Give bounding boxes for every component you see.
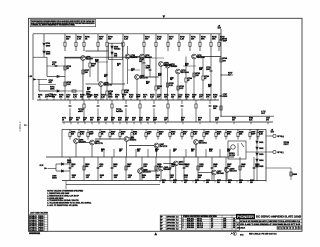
resistor R9 <box>167 42 169 46</box>
resistor R34 <box>195 104 197 108</box>
svg-text:R875: R875 <box>195 180 199 182</box>
svg-text:R859: R859 <box>155 149 159 151</box>
wire <box>140 122 142 124</box>
wire <box>196 56 221 58</box>
svg-text:R871: R871 <box>162 180 166 182</box>
resistor R6 <box>122 42 124 46</box>
wire <box>78 129 80 132</box>
wire <box>253 157 255 181</box>
wire <box>185 57 187 79</box>
capacitor C10 <box>125 105 128 106</box>
svg-text:RF: RF <box>161 228 163 230</box>
resistor R54 <box>125 166 127 170</box>
capacitor C7 <box>220 95 223 96</box>
wire <box>39 90 57 92</box>
svg-text:680: 680 <box>52 97 55 99</box>
svg-text:C833: C833 <box>206 180 210 182</box>
wire <box>256 161 258 165</box>
wire <box>78 142 89 144</box>
wire <box>81 98 83 100</box>
svg-text:2SC945: 2SC945 <box>217 172 225 175</box>
wire <box>99 129 101 132</box>
svg-text:220P: 220P <box>251 134 256 136</box>
svg-text:R756: R756 <box>185 64 189 66</box>
resistor R51 <box>249 133 251 137</box>
svg-text:150: 150 <box>85 72 88 74</box>
capacitor C16 <box>111 167 114 168</box>
wire <box>153 100 155 104</box>
wire <box>167 68 169 100</box>
svg-text:330: 330 <box>146 120 149 122</box>
wire right bus <box>265 129 267 181</box>
svg-text:2SC2275: 2SC2275 <box>143 171 152 173</box>
wire <box>48 167 56 169</box>
wire <box>144 98 146 100</box>
wire <box>249 129 251 132</box>
wire <box>154 122 156 124</box>
svg-text:RF: RF <box>161 222 163 224</box>
wire <box>142 170 158 172</box>
svg-text:LAST USED / DELETED: LAST USED / DELETED <box>30 212 49 215</box>
wire <box>39 98 41 100</box>
diode D2 <box>43 51 45 53</box>
wire <box>182 122 184 124</box>
wire <box>69 157 71 181</box>
transistor Q19 <box>225 168 230 173</box>
svg-text:560: 560 <box>115 97 118 99</box>
svg-text:R855: R855 <box>101 149 105 151</box>
svg-text:470: 470 <box>132 119 135 122</box>
resistor R11 <box>189 42 191 46</box>
diode D7 <box>61 163 63 165</box>
svg-text:KT: KT <box>211 219 213 221</box>
zone marker top <box>162 15 165 18</box>
svg-text:8.2: 8.2 <box>176 228 178 230</box>
svg-text:KT: KT <box>211 227 213 229</box>
svg-text:1/50: 1/50 <box>205 134 209 136</box>
wire <box>135 149 137 157</box>
wire <box>83 100 85 104</box>
wire <box>129 145 154 147</box>
svg-text:D815: D815 <box>259 166 263 168</box>
wire <box>257 129 259 132</box>
wire <box>191 137 193 140</box>
wire <box>100 86 102 100</box>
resistor R24 <box>122 90 124 94</box>
capacitor C4 <box>143 63 146 64</box>
svg-text:100: 100 <box>162 182 165 184</box>
svg-text:0.22: 0.22 <box>241 166 244 168</box>
wire <box>195 100 197 104</box>
resistor R2 <box>75 42 77 46</box>
wire <box>98 122 100 124</box>
wire <box>195 108 197 122</box>
transistor Q5 <box>135 75 140 80</box>
svg-text:560: 560 <box>97 120 100 122</box>
wire <box>91 122 93 124</box>
wire <box>178 34 180 42</box>
wire <box>169 129 171 132</box>
svg-text:R760: R760 <box>87 88 91 90</box>
wire <box>214 181 216 183</box>
revision balloon <box>233 232 236 236</box>
wire <box>199 34 201 42</box>
svg-text:DC SERVO AMP/END SLATE 100(5: DC SERVO AMP/END SLATE 100(5 <box>256 215 302 218</box>
wire <box>69 137 71 140</box>
svg-text:P02 K9: P02 K9 <box>39 228 44 230</box>
wire <box>195 144 197 157</box>
wire <box>47 75 57 77</box>
wire <box>145 129 147 132</box>
zone marker bottom <box>154 232 157 235</box>
wire <box>141 157 143 181</box>
wire <box>84 122 86 124</box>
resistor R25 <box>155 86 157 90</box>
resistor R10 <box>178 42 180 46</box>
wire <box>205 149 207 157</box>
node <box>220 116 221 117</box>
wire <box>221 74 233 76</box>
svg-text:47: 47 <box>205 77 207 80</box>
wire <box>119 137 121 140</box>
resistor R1 <box>64 42 66 46</box>
capacitor C2 <box>149 69 152 70</box>
wire <box>155 51 157 86</box>
resistor R16 <box>64 82 66 86</box>
wire <box>139 108 141 122</box>
wire <box>266 167 291 169</box>
wire <box>225 137 227 140</box>
wire <box>210 34 212 42</box>
wire <box>141 59 143 77</box>
wire <box>158 98 160 100</box>
resistor R17 <box>72 90 76 92</box>
svg-text:2SC1775: 2SC1775 <box>140 77 149 79</box>
wire <box>215 129 217 132</box>
resistor R28 <box>220 58 222 62</box>
transistor Q2 <box>99 82 104 87</box>
wire <box>113 149 115 157</box>
wire <box>147 149 149 157</box>
resistor R45 <box>181 133 183 137</box>
wire <box>128 69 140 71</box>
wire <box>256 155 258 159</box>
diode D9 <box>256 141 258 143</box>
svg-text:C718: C718 <box>199 68 203 70</box>
wire <box>130 98 132 100</box>
svg-text:C817: C817 <box>119 149 123 151</box>
wire <box>177 74 179 100</box>
wire <box>137 98 139 100</box>
svg-text:8.2K: 8.2K <box>171 134 176 136</box>
wire <box>111 157 113 181</box>
wire <box>111 59 113 84</box>
svg-text:CJ682-2: CJ682-2 <box>18 121 22 131</box>
wire <box>60 98 62 100</box>
resistor R3 <box>83 42 85 46</box>
wire ground rail bottom <box>62 180 266 182</box>
svg-text:R750: R750 <box>117 64 121 66</box>
note box <box>30 20 96 27</box>
svg-text:WN 8-2: WN 8-2 <box>197 219 202 221</box>
wire <box>65 181 67 190</box>
bias network box <box>108 43 122 59</box>
wire <box>127 46 129 54</box>
resistor R5 <box>106 42 108 46</box>
wire <box>119 129 121 132</box>
wire <box>199 122 201 124</box>
resistor R46 <box>191 133 193 137</box>
svg-text:C819: C819 <box>173 149 177 151</box>
svg-text:1.2K: 1.2K <box>193 134 198 136</box>
wire <box>46 57 48 76</box>
svg-text:390: 390 <box>192 97 195 99</box>
wire <box>149 57 151 69</box>
wire <box>66 183 160 185</box>
svg-text:8.2: 8.2 <box>176 225 178 227</box>
svg-text:560: 560 <box>121 134 124 136</box>
wire <box>186 98 188 100</box>
svg-text:220: 220 <box>171 97 174 99</box>
svg-text:0.22: 0.22 <box>180 88 184 90</box>
wire <box>143 34 145 42</box>
svg-text:2SA979: 2SA979 <box>79 140 86 143</box>
wire <box>163 65 175 67</box>
wire <box>95 61 108 63</box>
revision table <box>29 212 49 235</box>
svg-text:RF: RF <box>161 225 163 227</box>
wire <box>209 100 211 104</box>
resistor R15 <box>64 66 66 70</box>
transistor Q7 <box>165 63 170 68</box>
wire <box>46 156 234 158</box>
svg-text:ECN-2117: ECN-2117 <box>187 221 194 223</box>
svg-text:P02 K9: P02 K9 <box>39 230 44 232</box>
svg-text:330: 330 <box>217 182 220 184</box>
transistor Q12 <box>124 137 129 142</box>
wire <box>167 34 169 42</box>
svg-text:6. ADJ. TP. RESISTORS: VR LEVE: 6. ADJ. TP. RESISTORS: VR LEVEL <box>47 204 78 207</box>
svg-text:REF. CJ682-2 / PW AMP ASSY 1/1: REF. CJ682-2 / PW AMP ASSY 1/1 <box>249 232 277 235</box>
svg-text:R857: R857 <box>137 149 141 151</box>
wire <box>225 129 227 132</box>
wire <box>225 157 227 181</box>
wire <box>91 145 93 157</box>
wire mid rail <box>62 121 273 123</box>
svg-text:P02 K9: P02 K9 <box>39 221 44 223</box>
svg-text:2SA979: 2SA979 <box>86 57 93 60</box>
svg-text:100: 100 <box>156 177 159 179</box>
wire <box>211 157 213 181</box>
wire <box>106 46 108 51</box>
svg-text:±5MV: ±5MV <box>78 111 84 113</box>
relay RY801 <box>228 141 246 159</box>
resistor R20 <box>177 86 179 90</box>
resistor R44 <box>169 133 171 137</box>
wire <box>218 34 220 42</box>
svg-text:560: 560 <box>198 120 201 122</box>
svg-text:D812: D812 <box>259 148 263 150</box>
svg-text:330: 330 <box>217 134 220 136</box>
wire <box>237 129 239 132</box>
wire <box>112 122 114 124</box>
resistor R23 <box>106 91 108 95</box>
wire <box>46 98 48 100</box>
wire <box>125 100 127 104</box>
svg-text:SP R(-): SP R(-) <box>277 152 284 154</box>
capacitor C12 <box>181 105 184 106</box>
resistor R47 <box>203 133 205 137</box>
wire <box>256 167 258 181</box>
title block fields <box>236 220 302 230</box>
svg-text:D813: D813 <box>259 154 263 156</box>
transistor Q18 <box>212 170 217 175</box>
wire <box>159 181 161 183</box>
svg-text:47: 47 <box>188 79 190 82</box>
diode D12 <box>256 159 258 161</box>
wire <box>167 108 169 122</box>
wire <box>87 137 89 140</box>
wire <box>64 163 70 165</box>
wire <box>83 108 85 122</box>
svg-text:SH.1: SH.1 <box>240 235 244 237</box>
wire <box>89 57 91 63</box>
wire <box>106 34 108 42</box>
wire <box>75 143 77 157</box>
wire <box>181 137 183 140</box>
wire <box>53 98 55 100</box>
wire <box>256 139 258 141</box>
resistor R37 <box>87 133 89 137</box>
capacitor C21 <box>225 167 228 168</box>
wire <box>125 157 127 181</box>
resistor R36 <box>78 133 80 137</box>
wire <box>185 149 187 157</box>
resistor R53 <box>83 166 85 170</box>
wire <box>85 83 98 85</box>
wire <box>183 157 185 181</box>
wire <box>156 148 158 157</box>
svg-text:220: 220 <box>250 182 253 184</box>
wire <box>185 82 187 100</box>
svg-text:3.3K: 3.3K <box>259 134 264 136</box>
wire <box>131 137 133 140</box>
transistor Q4 <box>140 54 145 59</box>
capacitor C22 <box>253 167 256 168</box>
wire <box>143 64 145 77</box>
wire <box>249 137 251 140</box>
wire <box>193 98 195 100</box>
wire <box>126 122 128 124</box>
wire <box>155 157 157 181</box>
transistor Q13 <box>154 143 159 148</box>
svg-text:KT: KT <box>211 221 213 223</box>
wire <box>290 168 292 180</box>
diode D10 <box>256 147 258 149</box>
svg-text:C716: C716 <box>170 78 174 80</box>
wire <box>103 83 125 85</box>
diode D5 <box>111 46 113 48</box>
capacitor C5 <box>210 70 213 71</box>
wire <box>63 122 65 124</box>
svg-text:220: 220 <box>196 75 199 77</box>
wire <box>56 170 61 172</box>
resistor R40 <box>119 133 121 137</box>
wire <box>157 137 159 140</box>
wire <box>181 129 183 132</box>
resistor R13 <box>210 42 212 46</box>
wire <box>109 137 111 140</box>
wire <box>256 149 258 153</box>
wire <box>143 51 145 62</box>
svg-text:100: 100 <box>171 166 174 168</box>
wire <box>64 57 66 100</box>
wire <box>116 98 118 100</box>
wire <box>203 129 205 132</box>
transistor Q11 <box>90 140 95 145</box>
wire <box>256 143 258 147</box>
wire <box>109 98 111 100</box>
svg-text:330: 330 <box>142 177 145 179</box>
wire <box>155 34 157 42</box>
diode D1 <box>43 43 45 45</box>
wire <box>59 75 65 77</box>
svg-text:470: 470 <box>72 176 75 179</box>
wire <box>33 56 47 58</box>
wire <box>103 149 105 157</box>
svg-text:470: 470 <box>183 133 186 136</box>
svg-text:470: 470 <box>143 96 146 99</box>
wire <box>246 151 269 153</box>
wire <box>70 122 72 124</box>
svg-text:0±25MV: 0±25MV <box>116 111 124 113</box>
svg-text:680: 680 <box>92 66 95 68</box>
svg-text:680: 680 <box>127 166 130 168</box>
wire <box>83 34 85 42</box>
wire <box>85 50 108 52</box>
wire <box>130 56 140 58</box>
svg-text:8.2: 8.2 <box>176 216 178 218</box>
wire <box>123 98 125 100</box>
capacitor C9 <box>97 105 100 106</box>
wire <box>139 76 158 78</box>
svg-text:R881: R881 <box>250 180 254 182</box>
resistor R33 <box>167 104 169 108</box>
wire <box>214 98 216 100</box>
wire <box>189 46 191 51</box>
svg-text:2SA872: 2SA872 <box>130 138 137 141</box>
wire <box>125 108 127 122</box>
wire <box>170 181 172 183</box>
wire <box>69 129 71 132</box>
wire <box>225 181 227 183</box>
wire <box>199 46 201 51</box>
node R-IN input <box>44 167 48 169</box>
transistor Q1 <box>81 56 86 61</box>
svg-text:P02 K9: P02 K9 <box>39 223 44 225</box>
svg-text:100: 100 <box>191 151 194 153</box>
resistor R31 <box>111 104 113 108</box>
wire <box>203 181 205 183</box>
manufacturer logo <box>236 214 255 219</box>
resistor R56 <box>197 166 199 170</box>
wire <box>89 67 91 77</box>
wire <box>218 46 220 51</box>
svg-text:R863: R863 <box>209 149 213 151</box>
transistor Q9 <box>192 54 197 59</box>
capacitor C13 <box>209 105 212 106</box>
wire <box>200 98 202 100</box>
